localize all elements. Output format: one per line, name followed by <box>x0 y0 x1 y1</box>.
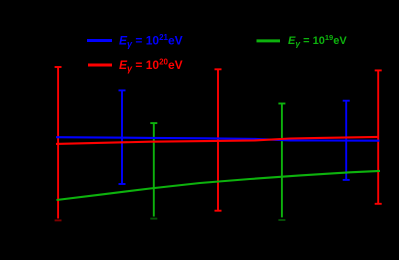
error bar red R2 <box>215 69 222 210</box>
blue curve Egamma 1e21 <box>56 137 380 141</box>
error bar green G1 <box>150 123 157 219</box>
legend blue line <box>87 39 112 42</box>
red curve Egamma 1e20 <box>56 137 379 144</box>
legend red line <box>88 64 112 67</box>
error bar blue B1 <box>119 90 126 184</box>
error bar red R1 <box>55 67 62 220</box>
green curve Egamma 1e19 <box>57 171 381 200</box>
legend green line <box>257 39 281 42</box>
error bar green G2 <box>278 104 285 221</box>
error bar red R3 <box>375 70 382 203</box>
error bar blue B2 <box>343 101 350 180</box>
